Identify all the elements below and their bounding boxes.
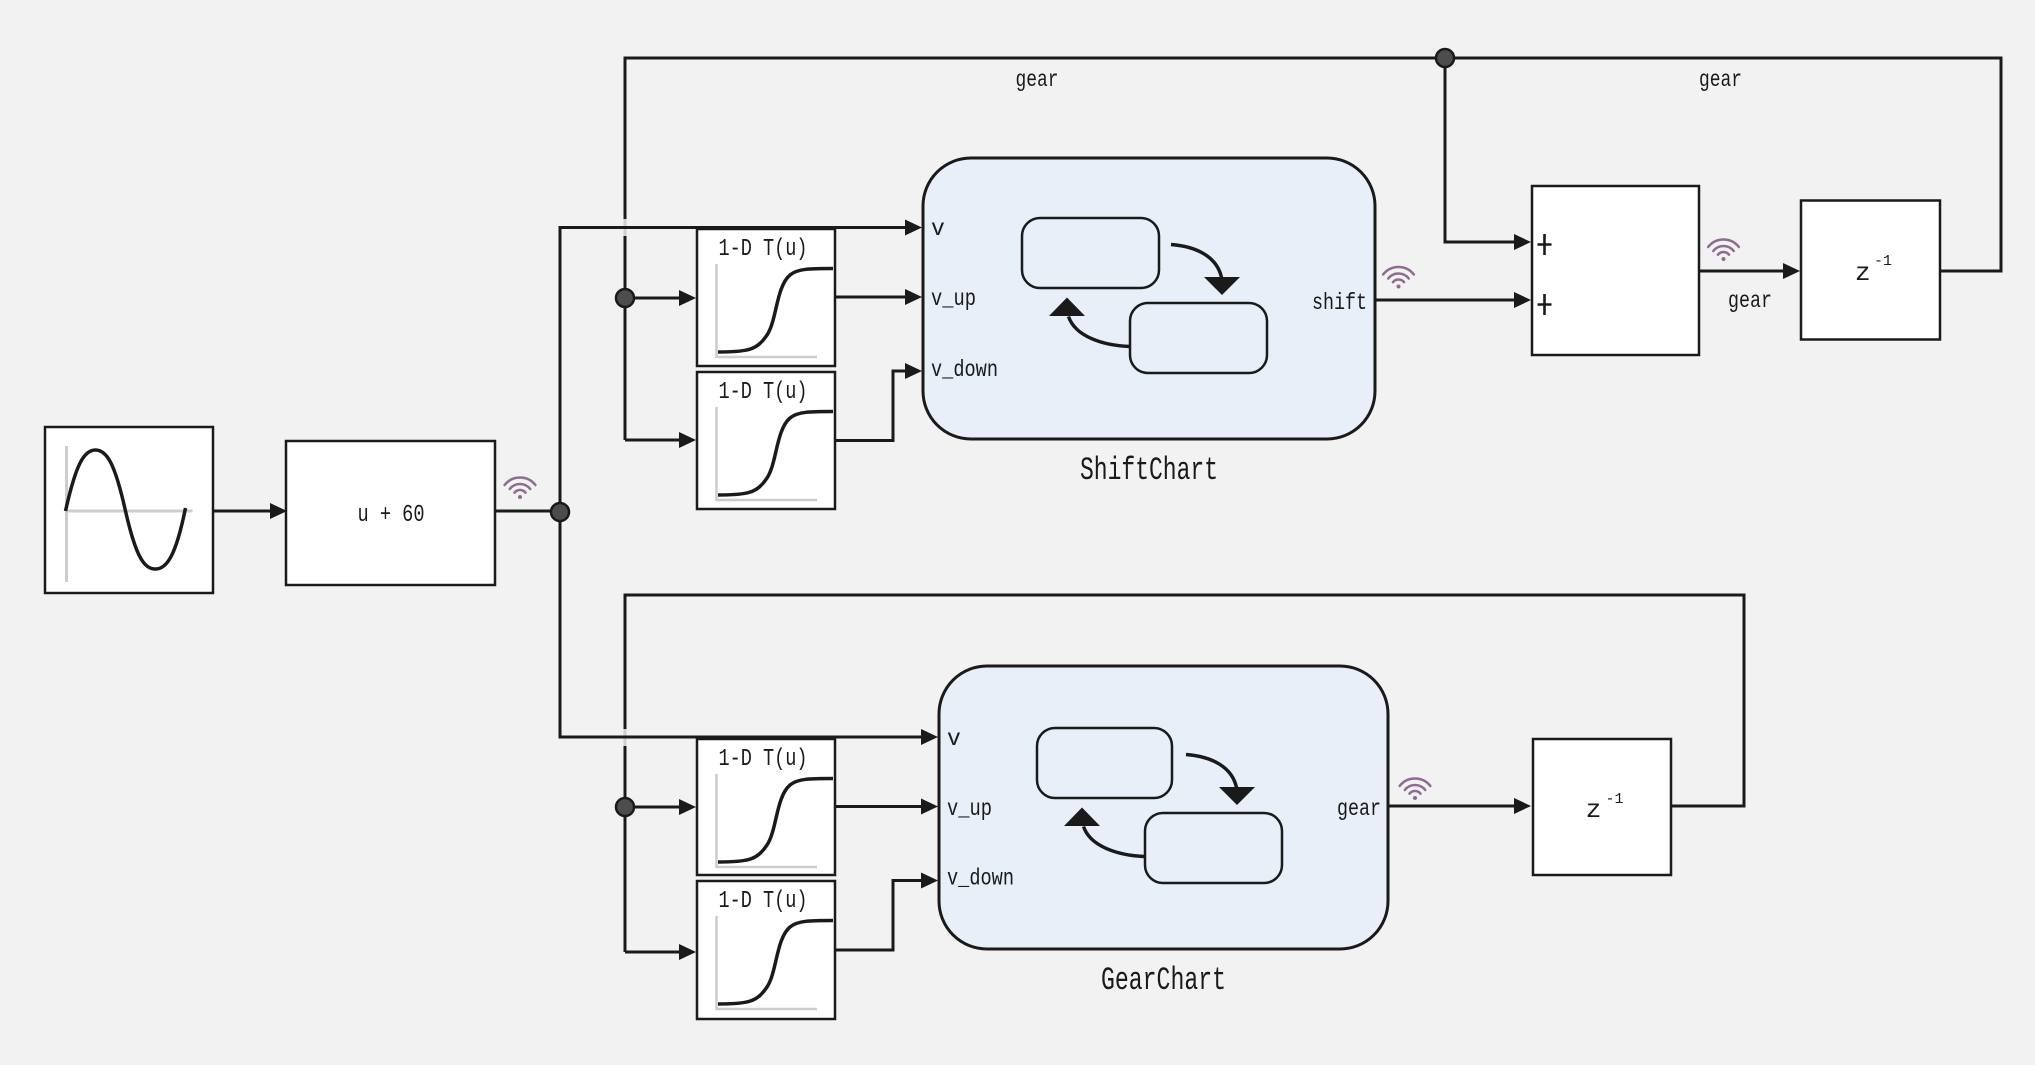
svg-text:v: v: [931, 216, 945, 242]
svg-text:v_up: v_up: [931, 286, 976, 312]
svg-text:1-D T(u): 1-D T(u): [719, 236, 808, 263]
svg-text:v_up: v_up: [947, 796, 992, 822]
svg-text:shift: shift: [1312, 290, 1367, 316]
svg-text:1-D T(u): 1-D T(u): [719, 888, 808, 915]
svg-text:v: v: [947, 726, 961, 752]
svg-text:u + 60: u + 60: [358, 502, 425, 529]
svg-text:z: z: [1586, 795, 1602, 825]
svg-text:v_down: v_down: [947, 866, 1014, 892]
svg-text:1-D T(u): 1-D T(u): [719, 379, 808, 406]
svg-text:ShiftChart: ShiftChart: [1080, 452, 1218, 489]
svg-text:-1: -1: [1874, 253, 1892, 270]
svg-text:-1: -1: [1606, 791, 1624, 808]
svg-text:1-D T(u): 1-D T(u): [719, 746, 808, 773]
svg-text:gear: gear: [1016, 67, 1059, 93]
svg-text:v_down: v_down: [931, 357, 998, 383]
svg-text:gear: gear: [1728, 288, 1772, 314]
svg-text:gear: gear: [1699, 67, 1742, 93]
svg-text:z: z: [1855, 258, 1871, 288]
svg-text:GearChart: GearChart: [1101, 962, 1226, 999]
svg-text:gear: gear: [1337, 796, 1381, 822]
